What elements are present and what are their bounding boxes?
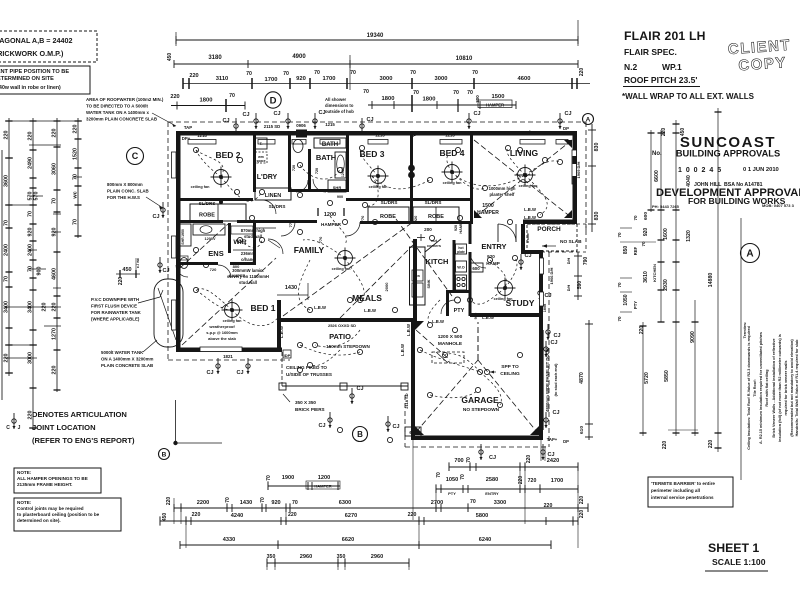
svg-text:720: 720: [292, 165, 296, 171]
patio slab edge: [279, 352, 408, 390]
svg-text:70: 70: [4, 276, 10, 282]
bottom dim row 4240/6270/5800: [160, 503, 585, 525]
light outlets: [193, 145, 562, 442]
svg-text:920: 920: [271, 500, 280, 506]
svg-text:REF: REF: [633, 246, 638, 255]
wall bed2/ldry divider: [253, 135, 256, 192]
svg-text:70: 70: [292, 500, 298, 506]
wall labels rotated misc: [177, 161, 581, 319]
svg-text:NOTE:: NOTE:: [17, 500, 32, 505]
water tank outline: [154, 279, 183, 347]
svg-text:ROBE: ROBE: [380, 214, 396, 220]
svg-text:1430: 1430: [240, 500, 252, 506]
garage drop lines: [412, 440, 414, 520]
top dimension row 1800s: [170, 93, 245, 112]
svg-text:700: 700: [454, 458, 463, 464]
svg-text:FLAIR SPEC.: FLAIR SPEC.: [624, 47, 677, 57]
svg-text:DENOTES ARTICULATION: DENOTES ARTICULATION: [32, 410, 127, 419]
svg-text:PLAIN CONC. SLAB: PLAIN CONC. SLAB: [107, 189, 149, 194]
wall study right: [539, 252, 543, 317]
svg-text:BATH: BATH: [316, 153, 336, 162]
svg-text:IDP: IDP: [284, 353, 291, 358]
wall bath/bed3 divider: [346, 135, 349, 192]
svg-text:PH: 5443 7265: PH: 5443 7265: [652, 204, 680, 209]
wall wc/bath divider: [308, 149, 311, 192]
svg-text:s.p.p @ 1600mm: s.p.p @ 1600mm: [206, 330, 238, 335]
svg-text:1200: 1200: [324, 212, 336, 218]
svg-text:c.l wc: c.l wc: [136, 258, 140, 268]
svg-text:830: 830: [594, 143, 600, 152]
svg-text:0906: 0906: [296, 123, 306, 128]
svg-text:1218: 1218: [375, 133, 385, 138]
svg-text:770: 770: [288, 220, 293, 227]
svg-text:1900: 1900: [282, 475, 294, 481]
right dim 790/590: [567, 252, 589, 300]
svg-text:L.B.W: L.B.W: [524, 215, 536, 220]
svg-text:L.B.W: L.B.W: [406, 324, 411, 336]
svg-text:70: 70: [28, 211, 34, 217]
svg-text:10810: 10810: [456, 56, 473, 62]
svg-text:SPP TO: SPP TO: [501, 364, 519, 370]
svg-text:2200: 2200: [197, 500, 209, 506]
svg-text:BED 4: BED 4: [439, 148, 464, 158]
small dim 450 220: [116, 258, 140, 285]
svg-text:1200 X 500: 1200 X 500: [438, 334, 463, 340]
svg-text:920: 920: [413, 215, 418, 222]
garage roof hips: [416, 330, 537, 432]
family diagonal: [283, 222, 413, 318]
svg-text:CJ: CJ: [392, 424, 399, 430]
right dim 4870/610: [579, 320, 593, 440]
svg-text:220: 220: [28, 132, 34, 141]
svg-text:2490: 2490: [28, 157, 34, 169]
svg-text:70: 70: [363, 89, 369, 95]
svg-text:CJ: CJ: [553, 333, 560, 339]
svg-text:FOR RAINWATER TANK: FOR RAINWATER TANK: [91, 310, 142, 315]
svg-text:U/SIDE OF TRUSSES: U/SIDE OF TRUSSES: [286, 372, 332, 377]
window marks living wall: [524, 156, 577, 224]
ens diagonal: [180, 224, 228, 268]
svg-text:4330: 4330: [223, 537, 235, 543]
svg-text:920: 920: [454, 225, 458, 231]
node B marker: [159, 400, 223, 460]
sd rotated: [404, 393, 409, 408]
svg-text:920: 920: [28, 228, 34, 237]
svg-text:14880: 14880: [708, 273, 714, 288]
stud wall note: [241, 228, 280, 248]
svg-text:1218: 1218: [445, 133, 455, 138]
ceiling fan LIVING: [515, 165, 536, 186]
svg-text:4600: 4600: [52, 268, 58, 280]
svg-text:450: 450: [162, 513, 168, 522]
brick piers note: [283, 394, 325, 412]
svg-text:1800: 1800: [200, 98, 213, 104]
svg-text:TAP+: TAP+: [547, 437, 558, 442]
svg-text:220: 220: [526, 455, 532, 464]
svg-text:FAMILY: FAMILY: [294, 245, 325, 255]
svg-text:dimensions to: dimensions to: [325, 103, 354, 108]
svg-text:900: 900: [37, 267, 43, 276]
svg-text:WATER TANK ON A 1400mm x: WATER TANK ON A 1400mm x: [86, 110, 149, 115]
bottom dim row 4330/6620/6240: [180, 537, 551, 549]
node B circle garage: [353, 427, 368, 442]
wall kitchen/entry: [413, 239, 417, 320]
svg-text:1320: 1320: [686, 230, 692, 242]
svg-text:1050: 1050: [446, 477, 458, 483]
bottom dim row 2200/6300: [166, 496, 588, 512]
svg-text:JOINT LOCATION: JOINT LOCATION: [32, 423, 96, 432]
svg-text:1200V: 1200V: [341, 166, 345, 177]
top dimension row windows: [183, 68, 590, 89]
svg-text:L.B.W: L.B.W: [432, 319, 444, 324]
living planter note: [477, 186, 536, 220]
svg-text:BED 1: BED 1: [250, 303, 275, 313]
svg-text:perimeter including all: perimeter including all: [651, 488, 700, 493]
svg-text:SL/DRS: SL/DRS: [269, 204, 286, 209]
svg-text:Control joints may be required: Control joints may be required: [17, 506, 84, 511]
svg-text:P.V.C DOWNPIPE WITH: P.V.C DOWNPIPE WITH: [91, 297, 139, 302]
svg-text:1906 D/H: 1906 D/H: [549, 267, 554, 284]
top dimension row 3180 4900 10810: [167, 53, 578, 90]
svg-text:70: 70: [617, 316, 622, 322]
svg-text:3000: 3000: [435, 76, 448, 82]
bottom dim verticals: [160, 462, 588, 570]
svg-text:BATH: BATH: [322, 142, 338, 148]
svg-text:920: 920: [296, 76, 306, 82]
node D: [265, 92, 281, 108]
svg-text:220: 220: [73, 125, 79, 134]
svg-text:ON A 1400mm X 3200mm: ON A 1400mm X 3200mm: [101, 357, 153, 362]
svg-text:ceiling fan: ceiling fan: [443, 181, 462, 185]
hamper ens: [210, 264, 246, 278]
svg-text:1430: 1430: [285, 285, 297, 291]
svg-text:No.: No.: [652, 151, 662, 157]
note diagonal box: [0, 31, 97, 62]
svg-text:CJ: CJ: [552, 410, 559, 416]
svg-text:CEILING: CEILING: [500, 371, 520, 377]
articulation legend: [6, 410, 135, 445]
svg-text:70: 70: [4, 220, 10, 226]
svg-text:D: D: [270, 95, 277, 106]
svg-text:2000: 2000: [384, 282, 389, 292]
svg-text:DETERMINED ON SITE: DETERMINED ON SITE: [0, 76, 54, 82]
svg-text:ENTRY: ENTRY: [481, 242, 506, 251]
svg-text:to plasterboard ceiling (posit: to plasterboard ceiling (position to be: [17, 512, 100, 517]
svg-text:CJ: CJ: [547, 452, 554, 458]
ceiling fan FAMILY: [335, 248, 356, 269]
ldry fixtures: [255, 138, 267, 163]
garage ridge dashed: [477, 322, 479, 360]
svg-text:450: 450: [167, 53, 173, 62]
bath fixtures: [292, 140, 346, 200]
svg-text:19340: 19340: [367, 33, 384, 39]
svg-text:(WHERE APPLICABLE): (WHERE APPLICABLE): [91, 317, 140, 322]
bath header box: [314, 138, 346, 148]
svg-text:CJ: CJ: [318, 110, 325, 116]
svg-text:150mm STEPDOWN: 150mm STEPDOWN: [326, 344, 370, 349]
bottom dim row hamper1900: [266, 475, 340, 490]
svg-text:BED 2: BED 2: [215, 150, 240, 160]
wall patio top (south family): [277, 318, 417, 322]
svg-text:3180: 3180: [208, 55, 222, 61]
ceiling fixed note: [286, 365, 332, 377]
svg-text:770: 770: [318, 236, 323, 243]
svg-text:HAMPER: HAMPER: [321, 222, 342, 227]
svg-text:space: space: [256, 159, 265, 163]
garage corner triangles: [415, 426, 424, 435]
spp note: [490, 364, 520, 377]
svg-text:BRICK PIERS: BRICK PIERS: [295, 407, 325, 412]
svg-text:3300: 3300: [494, 500, 506, 506]
manhole note: [432, 334, 464, 363]
svg-text:DP+: DP+: [182, 136, 191, 141]
svg-text:220: 220: [579, 68, 585, 77]
note hamper openings: [14, 468, 101, 493]
svg-text:required for brick veneer wall: required for brick veneer walls: [784, 360, 788, 415]
svg-text:cut: cut: [431, 239, 437, 243]
svg-text:AREA OF ROOFWATER (100m2 MIN.): AREA OF ROOFWATER (100m2 MIN.): [86, 97, 164, 102]
bottom dim row 700/2420: [449, 444, 578, 471]
svg-text:4240: 4240: [231, 513, 243, 519]
svg-text:1520: 1520: [73, 148, 79, 160]
svg-text:350: 350: [267, 554, 276, 560]
svg-text:920: 920: [643, 228, 649, 237]
svg-text:SCALE 1:100: SCALE 1:100: [712, 557, 766, 567]
svg-text:wc: wc: [73, 191, 79, 199]
svg-text:3060: 3060: [52, 163, 58, 175]
svg-text:FOR THE H.W.S: FOR THE H.W.S: [107, 195, 140, 200]
svg-text:1050: 1050: [623, 294, 629, 305]
svg-text:BUILDING APPROVALS: BUILDING APPROVALS: [676, 149, 780, 159]
articulation joints CJ: [222, 118, 238, 134]
svg-text:2400: 2400: [4, 244, 10, 256]
right dim 830/830: [588, 124, 600, 232]
svg-text:DIAGONAL A,B = 24402: DIAGONAL A,B = 24402: [0, 36, 73, 45]
svg-text:220: 220: [166, 497, 172, 506]
svg-text:70: 70: [413, 90, 419, 96]
no slab note: [542, 239, 582, 248]
svg-text:790: 790: [583, 257, 589, 266]
wall bed1 right: [277, 300, 281, 352]
svg-text:ceiling fan: ceiling fan: [332, 267, 351, 271]
windows study right wall: [540, 258, 544, 306]
door hinge dots: [219, 165, 415, 204]
svg-text:CJ: CJ: [318, 423, 325, 429]
svg-text:LIVING: LIVING: [510, 148, 539, 158]
svg-text:weatherproof: weatherproof: [208, 324, 235, 329]
svg-text:MOB: 0407 573 3: MOB: 0407 573 3: [762, 203, 795, 208]
svg-text:1200V: 1200V: [205, 237, 216, 241]
svg-text:PATIO: PATIO: [329, 332, 351, 341]
svg-text:CJ: CJ: [473, 111, 480, 117]
svg-text:600: 600: [643, 212, 649, 220]
svg-text:(Recommended but not mandatory: (Recommended but not mandatory to avoid …: [790, 339, 794, 437]
black corner triangles living: [474, 140, 572, 218]
svg-text:70: 70: [314, 70, 320, 76]
door arcs: [176, 179, 516, 314]
svg-text:w/box: w/box: [524, 129, 537, 134]
svg-text:2930: 2930: [663, 279, 669, 291]
note termite barrier: [648, 477, 733, 507]
svg-text:FIRST FLUSH DEVICE: FIRST FLUSH DEVICE: [91, 304, 137, 309]
svg-text:B: B: [357, 430, 363, 439]
svg-text:6620: 6620: [342, 537, 354, 543]
svg-text:Roof with flat ceiling: Roof with flat ceiling: [765, 369, 769, 407]
node A small: [583, 114, 594, 125]
svg-text:CJ: CJ: [162, 268, 169, 274]
top wall labels: [182, 122, 569, 141]
svg-text:'TERMITE BARRIER' to entire: 'TERMITE BARRIER' to entire: [651, 481, 715, 486]
svg-text:220: 220: [52, 366, 58, 375]
svg-text:CJ: CJ: [206, 370, 213, 376]
svg-text:1218: 1218: [197, 133, 207, 138]
svg-text:800: 800: [233, 264, 240, 269]
svg-text:ceiling fan: ceiling fan: [494, 297, 513, 301]
svg-text:L.B.W: L.B.W: [314, 305, 326, 310]
svg-text:590: 590: [577, 281, 583, 290]
overhang note: [241, 251, 256, 262]
note control joints: [14, 498, 121, 531]
svg-text:70: 70: [410, 70, 416, 76]
svg-text:( 140w wall in robe or linen): ( 140w wall in robe or linen): [0, 85, 61, 91]
svg-text:ROBE: ROBE: [199, 213, 215, 219]
svg-text:SHEET 1: SHEET 1: [708, 541, 759, 555]
robe boxes: [190, 204, 246, 221]
svg-text:1270: 1270: [52, 328, 58, 340]
right dimension cluster: [617, 108, 722, 452]
svg-text:70: 70: [73, 219, 79, 225]
svg-text:220: 220: [170, 94, 179, 100]
svg-text:1000: 1000: [177, 246, 181, 254]
svg-text:Termites:: Termites:: [743, 322, 747, 339]
svg-text:ENTRY: ENTRY: [485, 491, 499, 496]
svg-text:PORCH: PORCH: [537, 226, 561, 233]
svg-text:ceiling fan: ceiling fan: [519, 184, 538, 188]
top dimension row 19340: [176, 20, 578, 46]
svg-text:SINK: SINK: [427, 279, 431, 288]
svg-text:CJ: CJ: [524, 253, 531, 259]
svg-text:4870: 4870: [579, 372, 585, 384]
svg-text:3600: 3600: [4, 175, 10, 187]
electrical wiring curves: [196, 148, 560, 405]
svg-text:CJ: CJ: [489, 455, 496, 461]
svg-text:870mm high: 870mm high: [241, 228, 266, 233]
garage tap dp: [547, 437, 569, 444]
svg-text:70: 70: [283, 71, 289, 77]
svg-text:CJ: CJ: [356, 386, 363, 392]
svg-text:920: 920: [487, 254, 495, 259]
svg-text:70: 70: [246, 71, 252, 77]
title N.2 WP.1: [624, 62, 682, 72]
svg-text:CJ: CJ: [242, 112, 249, 118]
svg-text:830: 830: [594, 212, 600, 221]
svg-text:720: 720: [528, 478, 537, 484]
svg-text:3000: 3000: [380, 76, 393, 82]
svg-text:5800: 5800: [476, 513, 488, 519]
svg-text:6270: 6270: [345, 513, 357, 519]
svg-text:920: 920: [473, 312, 478, 319]
svg-text:SHR: SHR: [333, 185, 342, 190]
sldrs labels: [199, 200, 442, 209]
linen box: [255, 188, 291, 200]
svg-text:5850: 5850: [664, 370, 670, 382]
title FLAIR SPEC: [624, 47, 677, 57]
svg-text:70: 70: [617, 232, 622, 238]
svg-text:HAMPER: HAMPER: [314, 484, 331, 489]
svg-text:70: 70: [617, 282, 622, 288]
svg-text:2700: 2700: [431, 500, 443, 506]
svg-text:1821: 1821: [223, 354, 233, 359]
title ROOF PITCH: [623, 75, 700, 87]
svg-text:internal service penetrations: internal service penetrations: [651, 495, 714, 500]
svg-text:70: 70: [466, 457, 472, 463]
svg-text:COPY: COPY: [738, 54, 788, 74]
svg-text:5000lt WATER TANK: 5000lt WATER TANK: [101, 350, 144, 355]
ceiling fan BED1: [222, 300, 243, 321]
title text FLAIR 201 LH: [624, 29, 706, 43]
svg-text:2580: 2580: [486, 477, 498, 483]
svg-text:1000: 1000: [177, 214, 181, 222]
svg-text:Brick Veneer Walls - Additiona: Brick Veneer Walls - Additional installa…: [772, 338, 776, 437]
svg-text:BRICKWORK O.M.P.): BRICKWORK O.M.P.): [0, 49, 64, 58]
svg-text:*WALL WRAP TO ALL EXT. WALLS: *WALL WRAP TO ALL EXT. WALLS: [622, 92, 755, 101]
wall left exterior: [176, 131, 181, 352]
svg-text:C: C: [6, 425, 10, 431]
svg-text:1800: 1800: [423, 97, 436, 103]
robe labels: [199, 213, 444, 221]
svg-text:ROBE: ROBE: [428, 214, 444, 220]
svg-text:FLAIR 201 LH: FLAIR 201 LH: [624, 29, 706, 43]
svg-text:CJ: CJ: [222, 118, 229, 124]
porch outline: [527, 224, 577, 251]
cut corners note: [427, 239, 441, 248]
note water tank: [101, 340, 157, 368]
sheet label: [705, 541, 768, 571]
svg-text:C: C: [132, 151, 139, 161]
fine print column: [741, 218, 799, 480]
svg-text:NO STEPDOWN: NO STEPDOWN: [463, 407, 500, 413]
svg-text:PTY: PTY: [448, 491, 456, 496]
svg-text:J: J: [18, 425, 21, 431]
svg-text:220: 220: [408, 512, 417, 518]
svg-text:HAMPER: HAMPER: [486, 102, 504, 107]
kitchen fixtures: [410, 222, 484, 305]
svg-text:1200: 1200: [318, 475, 330, 481]
svg-text:1 0 0 2 4 5: 1 0 0 2 4 5: [678, 167, 722, 174]
note vent pipe box: [0, 66, 90, 94]
ceiling fan BED2: [211, 167, 232, 188]
svg-text:1600: 1600: [663, 228, 669, 240]
svg-text:Handrails: Total Wall R-Value: Handrails: Total Wall R-Value of R1.4 re…: [795, 339, 799, 437]
patio labels: [328, 323, 356, 328]
note hws slab: [107, 182, 163, 209]
svg-text:WP.1: WP.1: [662, 62, 682, 72]
svg-text:Tile Roof:: Tile Roof:: [753, 379, 757, 396]
svg-text:D/H: D/H: [567, 257, 571, 264]
svg-text:200: 200: [424, 227, 432, 232]
wall study bottom: [470, 313, 543, 317]
svg-text:3200mm PLAIN CONCRETE SLAB: 3200mm PLAIN CONCRETE SLAB: [86, 117, 157, 122]
svg-text:220: 220: [4, 131, 10, 140]
svg-text:1220: 1220: [521, 234, 525, 242]
ens fixtures: [178, 224, 225, 269]
svg-text:PLAIN CONCRETE SLAB: PLAIN CONCRETE SLAB: [101, 363, 153, 368]
svg-text:3610: 3610: [643, 271, 649, 283]
svg-text:4800mm WIDE PANELIFT DOOR: 4800mm WIDE PANELIFT DOOR: [545, 348, 550, 412]
wall bed4/living divider: [470, 135, 473, 224]
wall living bottom: [523, 220, 577, 225]
wall ldry/wc divider: [288, 135, 291, 192]
